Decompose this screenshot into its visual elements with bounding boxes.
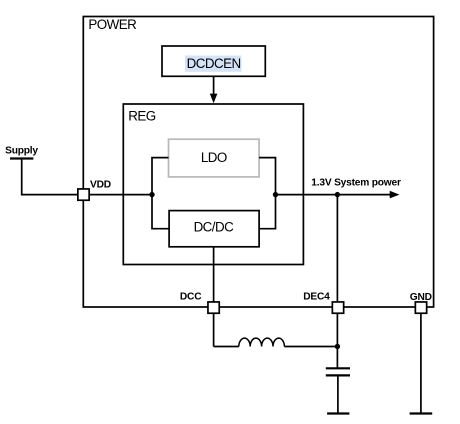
svg-text:DCC: DCC	[180, 291, 202, 302]
svg-text:LDO: LDO	[201, 150, 227, 165]
svg-text:VDD: VDD	[90, 180, 111, 191]
svg-text:DCDCEN: DCDCEN	[187, 56, 241, 71]
svg-text:1.3V System power: 1.3V System power	[311, 178, 401, 189]
svg-text:POWER: POWER	[88, 17, 137, 32]
svg-text:DEC4: DEC4	[303, 291, 330, 302]
svg-text:Supply: Supply	[5, 146, 38, 157]
svg-text:GND: GND	[410, 292, 432, 303]
svg-text:DC/DC: DC/DC	[194, 220, 235, 235]
svg-text:REG: REG	[128, 109, 156, 124]
